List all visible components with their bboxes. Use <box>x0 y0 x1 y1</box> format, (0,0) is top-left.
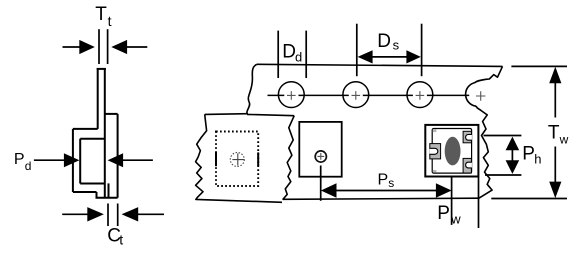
svg-text:P: P <box>378 172 389 189</box>
svg-text:D: D <box>282 42 296 63</box>
svg-text:P: P <box>437 203 450 224</box>
svg-text:h: h <box>534 152 541 167</box>
svg-text:s: s <box>393 38 400 53</box>
svg-text:t: t <box>119 231 123 247</box>
svg-text:P: P <box>522 143 535 164</box>
svg-text:d: d <box>295 50 302 65</box>
svg-text:T: T <box>548 123 560 144</box>
svg-text:t: t <box>108 13 112 29</box>
svg-text:P: P <box>14 151 25 168</box>
svg-text:w: w <box>559 133 569 147</box>
svg-text:s: s <box>388 176 394 190</box>
svg-text:T: T <box>95 4 107 25</box>
svg-text:d: d <box>25 159 32 173</box>
svg-text:D: D <box>377 31 391 52</box>
svg-text:w: w <box>450 211 461 226</box>
